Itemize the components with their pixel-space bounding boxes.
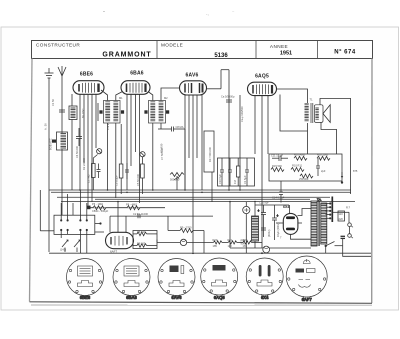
wire osc column — [71, 94, 73, 106]
pilot lamp L2 — [263, 246, 270, 253]
capacitor C6 bypass — [125, 163, 129, 179]
potentiometer P3 with arrow — [74, 240, 80, 252]
socket diagram 6X4 — [246, 258, 283, 297]
wire choke top — [254, 203, 256, 217]
svg-text:R20: R20 — [213, 238, 218, 242]
wire 6X4 top feed — [289, 205, 291, 213]
wire 6X4 anode taps — [298, 209, 312, 216]
padder capacitor L1 — [52, 140, 56, 143]
svg-text:R.?: R.? — [346, 206, 351, 210]
IF transformer M2 trimmer cap right — [166, 110, 169, 113]
tube 6AF7 envelope — [106, 232, 134, 248]
svg-text:R6 947: R6 947 — [137, 230, 146, 234]
wire plug link — [349, 227, 351, 234]
bus bottom rail — [49, 252, 371, 254]
fuse lamp symbol — [243, 202, 250, 254]
svg-text:C1 5μF: C1 5μF — [243, 175, 247, 184]
wire M2 primary bottom — [152, 123, 154, 190]
svg-text:110: 110 — [339, 212, 344, 216]
svg-text:6AV6: 6AV6 — [186, 73, 199, 79]
wire 6AF7 grid feeds — [110, 202, 126, 233]
svg-text:C3 0,5μF: C3 0,5μF — [115, 175, 119, 186]
wire 6BA6 pin3 — [135, 95, 137, 153]
svg-text:M2: M2 — [164, 96, 168, 100]
frame bottom shadow — [31, 304, 372, 306]
voltage selector contacts — [326, 203, 331, 219]
svg-text:1M: 1M — [233, 180, 237, 184]
wire 6AQ5 pin4 — [267, 96, 269, 155]
capacitor C2 — [76, 128, 82, 146]
frame bottom edge — [30, 302, 373, 304]
socket diagram 6AV6 — [158, 259, 195, 298]
svg-text:875: 875 — [353, 169, 358, 173]
trimmer capacitor CV2 — [140, 152, 145, 157]
resistor R12 250000 — [300, 174, 313, 178]
wire 6BE6 pin2 — [83, 95, 85, 164]
wire 6AQ5 grid column — [239, 95, 241, 190]
resistor R4 vertical — [237, 158, 240, 186]
voltage selector bar — [331, 197, 333, 223]
svg-text:C2 B1 11000: C2 B1 11000 — [133, 212, 149, 216]
tube 6AV6 envelope — [180, 81, 207, 95]
wire 6AV6 pin5 — [201, 95, 203, 190]
svg-text:6AQ5: 6AQ5 — [255, 74, 269, 80]
loudspeaker cone — [323, 105, 330, 123]
header divider numero — [317, 41, 319, 59]
capacitor C14b 500 — [87, 206, 91, 210]
svg-text:6BA6: 6BA6 — [130, 71, 144, 77]
svg-text:1951: 1951 — [280, 51, 292, 57]
svg-text:R9 - 2700: R9 - 2700 — [180, 226, 192, 230]
svg-text:6BE6: 6BE6 — [80, 295, 91, 300]
svg-text:500.000: 500.000 — [170, 178, 180, 182]
svg-text:R18 1000: R18 1000 — [317, 153, 329, 157]
svg-text:C11 15 μF: C11 15 μF — [271, 154, 283, 158]
wire 6AV6 pin3 — [192, 96, 194, 253]
IF transformer M1 primary coil — [105, 102, 110, 123]
svg-text:GRAMMONT: GRAMMONT — [102, 52, 151, 59]
svg-text:1,1 MΩ: 1,1 MΩ — [87, 175, 91, 183]
wire 6BA6 pin4 — [139, 95, 141, 204]
tone network box — [269, 154, 342, 181]
bus lower line — [110, 215, 213, 217]
tube 6X4 envelope — [276, 213, 302, 234]
svg-text:C1 50: C1 50 — [51, 99, 55, 106]
bus HT rail lower — [230, 247, 311, 249]
antenna symbol — [58, 66, 66, 76]
IF transformer M2 primary coil — [150, 102, 155, 123]
capacitor C14 0.5uF — [279, 181, 283, 203]
svg-text:C7 50.000: C7 50.000 — [160, 147, 164, 160]
wire detector box feed — [211, 172, 213, 202]
wire 6AQ5 plate to T1 — [277, 89, 308, 103]
resistor RH2 — [228, 241, 236, 244]
header divider modele — [156, 41, 158, 59]
svg-text:C4 50.000: C4 50.000 — [75, 145, 79, 158]
switch contacts top — [61, 215, 88, 221]
socket diagram 6AF7 — [286, 256, 327, 300]
svg-text:Ca.μ 100/500: Ca.μ 100/500 — [240, 106, 244, 122]
capacitor C12 — [245, 158, 249, 186]
mains voltage panel — [338, 211, 345, 221]
IF transformer M2 secondary coil — [159, 102, 164, 123]
wire 6BA6 plate to M2 — [148, 92, 153, 101]
wire 6AQ5 pin3 — [261, 96, 263, 248]
svg-text:(400v): (400v) — [267, 230, 271, 237]
svg-text:6AV6: 6AV6 — [171, 295, 182, 300]
output transformer T1 primary — [305, 103, 309, 122]
switch contacts bottom — [61, 229, 88, 234]
IF transformer M1 box — [104, 101, 121, 124]
wire M2 secondary top to 6AV6 grid — [161, 88, 180, 101]
resistor box R6 R8 — [133, 231, 157, 249]
wire heater drop — [156, 240, 158, 243]
output transformer T1 core — [311, 103, 313, 123]
capacitor C8 detector — [172, 127, 174, 132]
socket diagram 6BE6 — [67, 259, 104, 298]
output transformer T1 secondary — [315, 107, 318, 120]
wire 6AV6 pin2 — [188, 96, 190, 159]
svg-text:MODELE: MODELE — [161, 43, 183, 48]
svg-text:C15 8μF: C15 8μF — [259, 201, 269, 205]
svg-text:6BA6: 6BA6 — [126, 295, 137, 300]
wire heater run 4 — [237, 241, 243, 243]
wire 6AV6 pin1 — [184, 95, 186, 190]
IF transformer M2 box — [149, 101, 166, 124]
svg-text:CONSTRUCTEUR: CONSTRUCTEUR — [36, 43, 80, 48]
svg-text:220: 220 — [339, 217, 344, 221]
wire 6BA6 pin1 — [126, 95, 128, 191]
bus HT line — [61, 201, 355, 203]
wire switch to cap — [335, 245, 343, 247]
svg-text:ANNEE: ANNEE — [270, 44, 288, 49]
wire 6BE6 pin3 — [87, 95, 89, 206]
wire screen riser — [280, 95, 308, 132]
capacitor C10 — [228, 158, 232, 186]
IF transformer M2 trimmer cap left — [144, 110, 147, 113]
frame left edge — [30, 59, 33, 302]
wire 6BE6 pin1 — [79, 94, 81, 190]
capacitor C2B 11000 — [138, 214, 140, 218]
svg-text:472 kc: 472 kc — [106, 122, 110, 130]
wire HT top link — [255, 204, 289, 206]
resistor R2 screen — [119, 124, 123, 194]
resistor R16 4800 — [294, 156, 307, 160]
capacitor C5 bypass — [97, 164, 101, 179]
wire choke bottom — [254, 241, 256, 248]
wire heater run 5 — [251, 241, 262, 243]
power transformer secondary — [321, 203, 327, 244]
mains capacitor — [341, 236, 346, 245]
wire M1 to 6BA6 grid — [116, 92, 123, 101]
wire selector feed — [333, 212, 349, 223]
mains switch — [325, 242, 335, 254]
socket diagram 6BA6 — [113, 259, 150, 298]
wire coupling column — [228, 70, 230, 190]
tube 6BE6 envelope — [73, 81, 104, 95]
svg-text:+: + — [277, 214, 279, 218]
wire M1 secondary bottom — [115, 123, 117, 198]
svg-text:6X4: 6X4 — [261, 295, 269, 300]
svg-text:6AF7: 6AF7 — [110, 249, 118, 253]
resistor RH1 — [214, 241, 222, 244]
svg-text:R2 22.000: R2 22.000 — [82, 157, 86, 170]
svg-text:R8 265: R8 265 — [137, 241, 146, 245]
svg-text:6AF7: 6AF7 — [302, 297, 313, 302]
svg-text:2μF: 2μF — [321, 169, 326, 173]
header box frame — [32, 41, 373, 59]
wire 6BE6 plate to M1 — [101, 90, 108, 101]
wire speaker top to right rail — [320, 99, 351, 195]
wire 6BE6 pin4 — [91, 95, 93, 202]
wire left column — [40, 190, 54, 231]
resistor R6 947 — [133, 232, 157, 236]
svg-text:165: 165 — [243, 244, 248, 248]
capacitor Ca 5000p coupling — [226, 100, 232, 102]
svg-text:C5 50.000: C5 50.000 — [136, 173, 140, 186]
capacitor C9 — [220, 158, 224, 186]
IF transformer M1 secondary coil — [113, 102, 118, 123]
resistor R9 2700 — [168, 216, 204, 253]
svg-text:6AQ5: 6AQ5 — [214, 295, 226, 300]
svg-text:R10 R11: R10 R11 — [292, 164, 303, 168]
svg-text:R21: R21 — [228, 238, 233, 242]
svg-text:250.000: 250.000 — [299, 177, 309, 181]
band switch box — [54, 215, 95, 234]
wire detector diode — [158, 129, 185, 190]
header divider annee — [255, 41, 257, 59]
dial lamp L1 — [157, 239, 187, 245]
wire M2 secondary bottom — [160, 123, 162, 129]
svg-text:P6 - 1MΩ: P6 - 1MΩ — [92, 202, 103, 206]
svg-text:M1: M1 — [119, 96, 123, 100]
wire HT column left — [229, 202, 231, 248]
svg-text:16μF (400v): 16μF (400v) — [276, 223, 280, 237]
wire 6AQ5 pin2 — [254, 96, 256, 155]
svg-text:A . 50: A . 50 — [44, 123, 48, 130]
power transformer primary — [311, 201, 317, 246]
tube 6AQ5 envelope — [248, 82, 277, 95]
oscillator coil box — [69, 106, 77, 120]
wire 6BE6 pin5 — [95, 94, 97, 148]
electrolytic capacitor C15 — [261, 205, 266, 237]
svg-text:T.A.: T.A. — [317, 198, 322, 202]
wire osc column lower — [71, 120, 73, 191]
svg-text:CB14 - 500μF: CB14 - 500μF — [92, 209, 109, 213]
resistor R10 — [291, 168, 304, 172]
arrow HT tap — [341, 172, 343, 183]
svg-text:R16 4800: R16 4800 — [294, 153, 306, 157]
svg-text:Ca 5/5000p: Ca 5/5000p — [221, 95, 235, 99]
wire 6AV6 pin4 — [196, 96, 198, 159]
svg-text:5136: 5136 — [214, 53, 228, 59]
capacitor C4 on RF wire — [78, 140, 84, 142]
wire heater run 2 — [187, 241, 214, 243]
svg-text:185: 185 — [213, 244, 218, 248]
wire 6AV6 plate riser — [207, 70, 230, 89]
svg-text:6X4: 6X4 — [283, 205, 289, 209]
tube 6BA6 envelope — [121, 81, 150, 95]
svg-text:R17 500.000: R17 500.000 — [208, 147, 212, 162]
wire rail right end — [343, 246, 371, 257]
wire heater run 3 — [222, 241, 228, 243]
IF transformer M1 trimmer cap right — [121, 110, 124, 113]
resistor R1 osc grid — [92, 155, 98, 191]
mains plug pin 2 — [348, 234, 353, 238]
svg-text:R15 500: R15 500 — [272, 164, 282, 168]
resistor RH3 — [243, 241, 251, 244]
svg-text:C10 5μF: C10 5μF — [218, 174, 222, 184]
svg-text:.,: ., — [206, 11, 209, 17]
svg-text:C14 0,5μF: C14 0,5μF — [272, 196, 285, 200]
junction dots — [79, 189, 263, 254]
filter choke coil — [252, 216, 259, 241]
svg-text:BOB.ACC: BOB.ACC — [49, 138, 53, 150]
svg-text:(145): (145) — [60, 248, 66, 252]
volume potentiometer P1 — [170, 173, 184, 191]
svg-text:Bo.OSC: Bo.OSC — [81, 108, 85, 118]
ground terminal symbol — [45, 68, 54, 78]
resistor P6 1M — [93, 206, 106, 210]
svg-text:C8 MA: C8 MA — [176, 125, 184, 129]
wire switch feeds — [61, 190, 87, 215]
wire T1 bottom down — [307, 123, 309, 154]
wire M1 trimmer left — [97, 103, 99, 121]
capacitor C13 — [316, 158, 320, 176]
bus ground line — [51, 191, 351, 193]
svg-text:ˇ: ˇ — [103, 12, 105, 18]
resistor P8 4M — [127, 206, 140, 210]
volume control box — [204, 131, 214, 172]
bus AVC line — [49, 189, 351, 191]
wire 6X4 cathode down — [291, 234, 312, 239]
capacitor C11 — [272, 156, 288, 162]
capacitor C1 on antenna lead — [59, 110, 65, 112]
resistor R3 cathode — [141, 157, 145, 194]
antenna tuning coil L1 box — [57, 132, 68, 150]
resistor R8 265 — [133, 244, 157, 248]
svg-text:100: 100 — [228, 244, 233, 248]
svg-text:R22: R22 — [243, 238, 248, 242]
mains plug pin 1 — [348, 223, 353, 227]
socket diagram 6AQ5 — [201, 258, 238, 297]
svg-text:P8 - 4MΩ: P8 - 4MΩ — [126, 203, 137, 207]
resistor R15 500 — [271, 168, 284, 172]
detector network box — [218, 158, 255, 186]
loudspeaker frame — [314, 105, 323, 123]
electrolytic capacitor C16 — [272, 205, 277, 240]
wire 6BA6 pin2 — [130, 95, 132, 167]
wire M1 primary bottom — [107, 123, 109, 190]
frame right edge — [371, 59, 373, 304]
trimmer capacitor CV1 — [97, 149, 102, 154]
svg-text:6BE6: 6BE6 — [80, 72, 93, 78]
wire speaker bottom to tone box — [321, 122, 337, 154]
wire ground down — [48, 78, 50, 252]
wire antenna down — [61, 76, 63, 215]
power transformer core — [318, 201, 319, 246]
svg-text:N° 674: N° 674 — [334, 50, 356, 56]
wire switch outputs — [61, 223, 104, 253]
resistor R18 1000 — [317, 156, 330, 160]
wire P row — [87, 207, 165, 209]
bus heater line — [57, 196, 330, 198]
potentiometer P2 with arrow — [62, 240, 68, 252]
svg-text:+: + — [258, 209, 260, 213]
IF transformer M1 trimmer cap left — [99, 110, 102, 113]
